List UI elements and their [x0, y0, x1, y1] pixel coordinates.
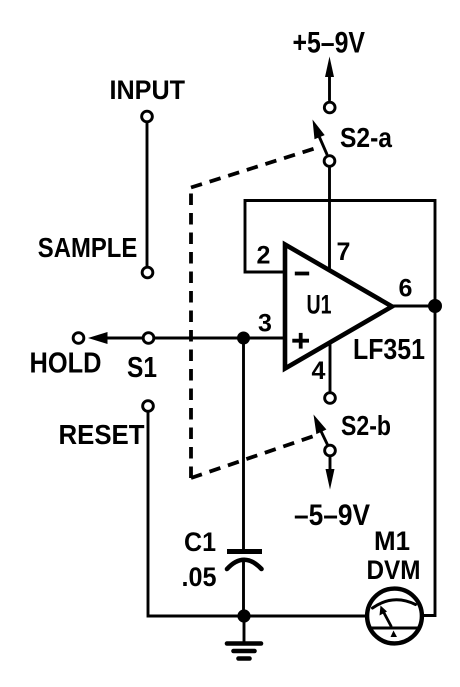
dashed gang linkage S2 [191, 147, 321, 188]
svg-text:U1: U1 [307, 289, 332, 319]
svg-text:HOLD: HOLD [30, 348, 102, 380]
svg-text:–5–9V: –5–9V [294, 499, 370, 532]
capacitor C1 [227, 549, 262, 554]
switch S1 pole [143, 333, 154, 344]
meter needle [383, 611, 391, 626]
svg-text:3: 3 [258, 310, 272, 338]
svg-text:DVM: DVM [367, 555, 421, 585]
meter M1 DVM [367, 589, 422, 644]
switch S2-a lever [320, 138, 327, 155]
terminal INPUT [142, 111, 153, 122]
svg-text:+5–9V: +5–9V [293, 27, 366, 60]
terminal RESET [143, 401, 154, 412]
wire arrow to S1 [104, 337, 142, 340]
ground [243, 616, 246, 642]
feedback loop wire (pin2 - top - output node - meter) [245, 201, 435, 616]
wire INPUT to SAMPLE [146, 123, 149, 266]
svg-text:S2-a: S2-a [340, 122, 392, 153]
wire S2-a to pin 7 [328, 167, 331, 272]
bottom rail wire [243, 615, 367, 618]
svg-text:.05: .05 [182, 562, 217, 592]
wire RESET down to bottom rail [148, 412, 243, 616]
arrow up to +5-9V [325, 57, 334, 78]
wire S1 to op-amp pin 3 [155, 337, 285, 340]
svg-text:2: 2 [257, 242, 271, 270]
switch S2-a top contact [324, 102, 335, 113]
node pin3 junction [237, 332, 250, 345]
meter chord [371, 627, 419, 630]
switch S2-b lever [321, 432, 327, 445]
switch S2-b bottom contact [325, 445, 336, 456]
terminal SAMPLE [142, 267, 153, 278]
plus sign pin3 [292, 339, 309, 343]
svg-text:S2-b: S2-b [341, 410, 391, 441]
wire output to node [392, 305, 435, 308]
op-amp U1 [285, 245, 392, 369]
svg-text:4: 4 [312, 357, 326, 385]
svg-text:S1: S1 [127, 352, 157, 384]
svg-text:C1: C1 [184, 527, 216, 557]
wire pin3 node down to C1 [242, 338, 245, 550]
terminal HOLD [73, 333, 84, 344]
svg-text:M1: M1 [374, 526, 410, 556]
svg-text:6: 6 [399, 275, 413, 303]
switch S2-b top contact [325, 393, 336, 404]
wire C1 to ground rail [242, 561, 245, 616]
arrow down to -5-9V [329, 457, 332, 472]
wire pin 4 [329, 342, 332, 392]
svg-text:RESET: RESET [59, 419, 145, 450]
meter scale arc [373, 600, 416, 608]
arrowhead toward HOLD [88, 332, 108, 344]
svg-text:SAMPLE: SAMPLE [38, 232, 138, 263]
svg-text:LF351: LF351 [353, 334, 425, 366]
minus sign pin2 [295, 272, 309, 276]
node ground junction [237, 609, 250, 622]
svg-text:INPUT: INPUT [110, 75, 186, 105]
svg-text:7: 7 [337, 238, 351, 266]
meter adjuster tick [391, 631, 398, 638]
switch S2-a bottom contact [324, 156, 335, 167]
node output junction [428, 299, 442, 313]
